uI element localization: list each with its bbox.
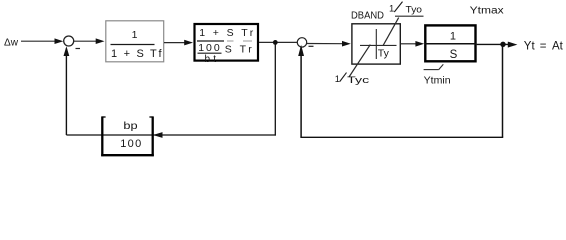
wire summer 2 to DBAND block [307,43,343,45]
svg-text:1: 1 [450,30,456,42]
svg-text:At: At [552,40,564,52]
wire DBAND to integrator block [401,43,416,45]
feedback 2 bottom wire [300,136,503,138]
svg-text:100: 100 [120,138,141,150]
integrator block 1/S box [425,25,475,61]
svg-text:100: 100 [198,42,220,54]
feedback 2 vertical from output tap [502,44,504,137]
minus sign at summer 1 [76,48,81,50]
slash of 1/Tyo [394,2,402,12]
bp block right side [152,116,154,156]
slash of 1/Tyc [340,73,347,82]
wire block 1 to block 2 [164,42,186,44]
svg-text:Yt: Yt [524,40,536,52]
svg-text:Ytmax: Ytmax [470,5,504,16]
bp block left side [101,116,103,156]
arrowhead into summer 1 [55,38,64,44]
svg-text:1: 1 [389,3,394,14]
wire through integrator (fraction bar) [425,43,477,45]
arrowhead into block 1 [96,38,105,44]
bp block top-right serif [149,116,152,118]
svg-text:Δw: Δw [4,38,19,49]
deadband vertical axis [375,29,377,59]
block 2 fraction bar faded fragment under S [227,40,234,42]
feedback 2 vertical up to summer 2 [300,49,302,138]
svg-text:bp: bp [123,121,138,132]
minus sign at summer 2 [309,45,314,47]
block 2 main fraction bar [197,40,224,42]
wire summer 1 to block 1 [74,40,97,42]
svg-text:S Tr: S Tr [225,43,253,55]
arrowhead up into summer 1 [64,46,70,56]
junction dot feedback 2 tap [500,42,505,47]
feedback 1 horizontal wire through bp block [66,134,276,136]
arrowhead into DBAND block [342,41,351,47]
label Ytmin leader diagonal [439,64,444,69]
output wire [477,43,509,45]
svg-text:1 + S Tf: 1 + S Tf [111,48,162,60]
svg-text:1: 1 [335,74,340,85]
block 1 transfer function 1/(1+S Tf) box [106,21,164,62]
deadband upper slope and leader to 1/Tyo [383,18,399,46]
svg-text:Tyo: Tyo [406,4,423,15]
summing junction circle 1 [64,36,74,46]
arrowhead left into bp block [153,132,163,138]
arrowhead into block 2 [184,40,193,46]
arrowhead into integrator block [415,41,424,47]
block 2 transfer function (1+S Tr)/((100/bt)S Tr) box [195,24,259,61]
bp block top-left serif [102,116,105,118]
bp block bottom side [101,154,154,156]
label Ytmin underline [424,69,439,71]
output arrowhead [508,42,518,48]
junction dot feedback 1 tap [273,40,278,45]
svg-text:Tyc: Tyc [347,75,369,86]
svg-text:S: S [450,49,458,61]
arrowhead up into summer 2 [298,45,304,56]
block 2 bar under 100 [198,52,222,54]
svg-text:Ytmin: Ytmin [424,75,451,87]
feedback 1 vertical up to summer 1 [65,49,67,136]
block 1 fraction bar [111,44,155,46]
DBAND block box [352,24,400,64]
wire block 2 to summer 2 [259,41,297,43]
wire input to summer 1 [21,40,56,42]
underline leader of 1/Tyo [395,15,424,17]
feedback 1 vertical from tap [274,42,276,135]
svg-text:Ty: Ty [378,48,390,60]
svg-text:1 + S Tr: 1 + S Tr [199,27,254,39]
summing junction circle 2 [297,38,306,47]
block 2 fraction bar faded fragment under Tr [243,40,252,42]
svg-text:DBAND: DBAND [351,11,384,22]
deadband horizontal axis [360,44,397,46]
deadband lower slope and leader to 1/Tyc [349,45,370,77]
svg-text:=: = [540,40,547,52]
svg-text:1: 1 [132,29,138,41]
